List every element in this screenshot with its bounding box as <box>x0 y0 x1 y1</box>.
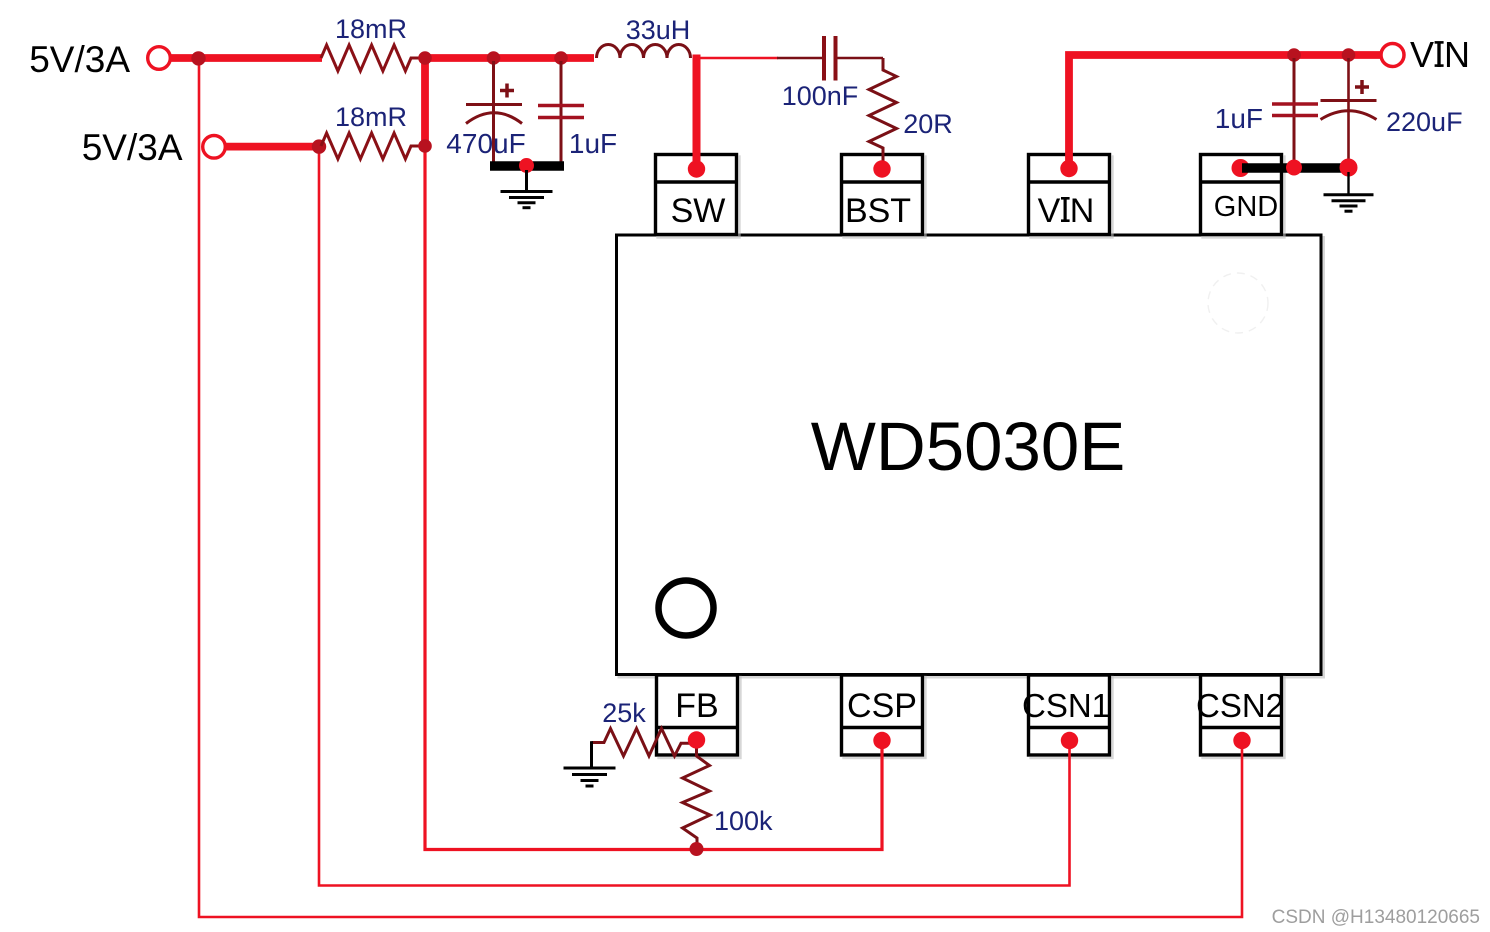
resistor R3 20R <box>869 58 897 167</box>
svg-text:1uF: 1uF <box>1215 103 1263 134</box>
ground (FB divider) <box>564 768 616 786</box>
resistor R1 18mR <box>321 45 425 71</box>
IC pin-1 marker circle <box>659 581 714 636</box>
svg-text:WD5030E: WD5030E <box>811 408 1125 485</box>
resistor R2 18mR <box>321 133 425 159</box>
node: VOUT junction <box>418 51 432 65</box>
node: R2 output junction <box>418 139 432 153</box>
terminal VIN letter-I serifs <box>1435 42 1444 65</box>
node: C4 bottom junction <box>1286 160 1302 176</box>
svg-text:20R: 20R <box>903 109 953 139</box>
node: BST pin dot <box>873 160 890 177</box>
svg-text:18mR: 18mR <box>335 102 407 132</box>
node: FB pin dot <box>688 731 705 748</box>
node: GND pin dot (under bar) <box>1232 159 1250 177</box>
pin VIN letter-I serifs <box>1061 198 1070 220</box>
capacitor C5 220uF <box>1321 58 1377 166</box>
wire: CSN1 sense (input 2 to CSN1) <box>319 146 1070 886</box>
IC U1 WD5030E body <box>617 235 1322 675</box>
wire: VOUT sense drop (thick) <box>421 58 429 148</box>
wire: CSN2 sense (input 1 to CSN2) <box>199 58 1242 917</box>
wire: output ground bar <box>490 161 564 171</box>
faint watermark circle inside IC <box>1208 273 1268 333</box>
node: CSN1 pin dot <box>1061 732 1078 749</box>
node: C1 top <box>487 51 501 65</box>
pin GND box <box>1201 155 1282 235</box>
capacitor C4 1uF <box>1272 58 1318 166</box>
capacitor C3 100nF <box>824 36 836 81</box>
svg-text:1uF: 1uF <box>569 128 617 159</box>
pin CSN1 box <box>1029 675 1110 755</box>
wire: C3 to R3 <box>838 57 884 60</box>
svg-text:5V/3A: 5V/3A <box>82 127 183 168</box>
pin CSN2 box <box>1201 675 1282 755</box>
svg-text:BST: BST <box>845 192 911 230</box>
svg-text:18mR: 18mR <box>335 14 407 44</box>
capacitor C1 470uF <box>466 61 522 166</box>
node: C4 top <box>1287 48 1301 62</box>
wire: bottom input to R2 <box>225 143 320 151</box>
ground (input) <box>1324 172 1374 211</box>
node: C5 top <box>1342 48 1356 62</box>
node: C2 top <box>554 51 568 65</box>
pin SW box <box>656 155 737 235</box>
svg-text:100nF: 100nF <box>782 81 859 111</box>
wire: GND bar <box>1242 163 1352 173</box>
svg-text:GND: GND <box>1214 191 1278 223</box>
wire: VOUT bus to inductor <box>425 54 594 62</box>
wire: C3 left lead <box>777 57 822 60</box>
node: CSN2 pin dot <box>1233 732 1250 749</box>
svg-text:CSDN @H13480120665: CSDN @H13480120665 <box>1272 907 1480 928</box>
node: CSP pin dot <box>873 732 890 749</box>
resistor R5 100k <box>683 743 711 849</box>
node: SW pin dot <box>688 160 705 177</box>
capacitor C2 1uF <box>538 61 584 166</box>
terminal 5V/3A (bottom) <box>203 136 226 159</box>
pin FB box <box>657 675 738 755</box>
svg-text:CSN2: CSN2 <box>1196 687 1284 724</box>
svg-text:33uH: 33uH <box>626 15 691 45</box>
terminal 5V/3A (top) <box>148 47 171 70</box>
node: FB divider junction <box>690 842 704 856</box>
inductor L1 33uH <box>597 44 691 58</box>
resistor R4 25k <box>592 729 697 757</box>
svg-text:25k: 25k <box>602 698 646 728</box>
wire: top input to R1 <box>170 54 322 62</box>
wire: R4 to ground <box>590 741 593 767</box>
wire: VIN pin to input rail <box>1069 55 1381 169</box>
svg-text:100k: 100k <box>714 806 773 836</box>
wire: VOUT sense to FB divider and CSP <box>425 146 882 850</box>
svg-text:5V/3A: 5V/3A <box>29 39 130 80</box>
svg-text:CSP: CSP <box>847 687 917 725</box>
node: output ground junction <box>519 158 534 173</box>
terminal VIN <box>1381 44 1404 67</box>
pin BST box <box>842 155 923 235</box>
node: top input junction <box>191 51 205 65</box>
node: bottom input junction <box>312 139 326 153</box>
svg-text:SW: SW <box>671 192 726 230</box>
svg-text:220uF: 220uF <box>1386 107 1463 137</box>
ground (output) <box>501 170 553 208</box>
pin CSP box <box>842 675 923 755</box>
wire: inductor to SW pin (thick drop) <box>693 55 701 169</box>
wire: SW node to C3 <box>697 57 778 60</box>
svg-text:FB: FB <box>675 687 718 725</box>
node: VIN pin dot <box>1060 160 1077 177</box>
pin VIN box <box>1029 155 1110 235</box>
svg-text:CSN1: CSN1 <box>1022 687 1110 724</box>
svg-text:VIN: VIN <box>1410 34 1470 75</box>
svg-text:470uF: 470uF <box>446 128 525 159</box>
node: C5 bottom junction <box>1340 159 1358 177</box>
